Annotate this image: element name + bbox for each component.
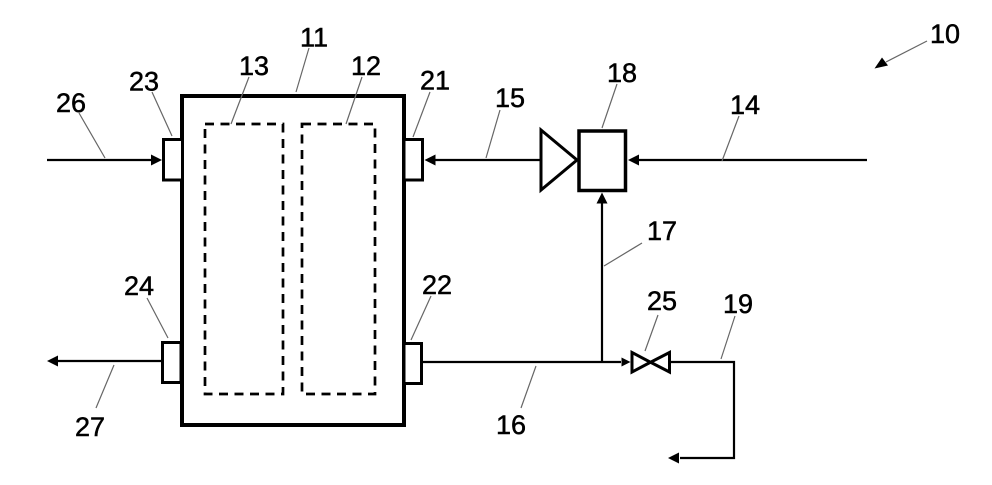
svg-text:25: 25 bbox=[647, 286, 677, 316]
svg-text:11: 11 bbox=[300, 23, 328, 53]
svg-text:21: 21 bbox=[420, 66, 450, 96]
svg-text:10: 10 bbox=[930, 19, 960, 49]
svg-text:17: 17 bbox=[647, 216, 677, 246]
svg-text:23: 23 bbox=[129, 67, 159, 97]
svg-text:22: 22 bbox=[422, 270, 452, 300]
svg-text:26: 26 bbox=[56, 88, 86, 118]
svg-text:24: 24 bbox=[124, 271, 154, 301]
svg-text:18: 18 bbox=[607, 58, 637, 88]
svg-text:12: 12 bbox=[351, 51, 381, 81]
svg-text:19: 19 bbox=[723, 289, 753, 319]
svg-text:14: 14 bbox=[730, 90, 760, 120]
svg-text:15: 15 bbox=[495, 83, 525, 113]
svg-text:27: 27 bbox=[75, 412, 105, 442]
svg-text:13: 13 bbox=[239, 51, 269, 81]
svg-text:16: 16 bbox=[496, 410, 526, 440]
